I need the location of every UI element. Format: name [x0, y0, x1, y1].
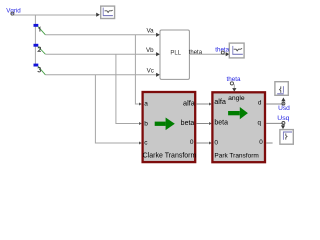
- signal label theta (on PLL output wire): [215, 46, 229, 54]
- svg-text:theta: theta: [215, 46, 229, 53]
- signal label Vgrid: [6, 8, 21, 16]
- svg-text:angle: angle: [228, 95, 245, 102]
- wire branch Va to Clarke a: [135, 35, 138, 104]
- scope SC4 (Usq): [280, 130, 293, 145]
- svg-text:Park Transform: Park Transform: [214, 152, 258, 159]
- wire theta label to Park angle input: [232, 84, 236, 91]
- signal label Usd: [278, 102, 290, 112]
- wire Park q to scope SC4: [266, 123, 285, 129]
- svg-text:beta: beta: [214, 120, 228, 127]
- svg-text:0: 0: [190, 139, 194, 146]
- svg-text:a: a: [144, 101, 148, 108]
- svg-text:b: b: [144, 121, 148, 128]
- wire Clarke 0 to Park 0: [196, 142, 209, 144]
- scope SC3 (Usd): [275, 82, 288, 96]
- Park Transform green arrow icon: [228, 107, 248, 119]
- wire Vgrid bus vertical: [34, 15, 36, 64]
- wire Clarke beta to Park beta: [196, 123, 209, 125]
- svg-text:Usd: Usd: [278, 105, 290, 112]
- signal label theta (source for Park angle): [227, 76, 242, 85]
- wire Clarke alfa to Park alfa: [196, 103, 209, 105]
- wire branch Vc to Clarke c: [95, 75, 138, 143]
- svg-text:alfa: alfa: [214, 97, 227, 106]
- wire Vc: [45, 67, 159, 77]
- svg-text:Va: Va: [146, 27, 154, 34]
- tap 1: [34, 24, 46, 35]
- svg-text:Usq: Usq: [277, 115, 289, 122]
- tap 3: [34, 64, 46, 75]
- tap 2: [34, 44, 46, 54]
- svg-text:d: d: [258, 100, 262, 107]
- signal label Usq: [277, 115, 289, 125]
- svg-text:theta: theta: [227, 76, 242, 83]
- wire Vgrid to scope SC1: [14, 13, 100, 17]
- svg-text:theta: theta: [189, 50, 203, 56]
- svg-text:0: 0: [214, 139, 218, 146]
- scope SC1: [101, 6, 115, 18]
- svg-text:PLL: PLL: [170, 51, 181, 57]
- svg-text:Clarke Transform: Clarke Transform: [143, 152, 197, 159]
- Clarke Transform green arrow icon: [155, 118, 175, 131]
- wire Park d to scope SC3: [266, 98, 285, 105]
- svg-text:Vb: Vb: [146, 47, 154, 54]
- svg-text:Vc: Vc: [147, 67, 154, 74]
- svg-text:alfa: alfa: [183, 98, 196, 107]
- scope SC2: [229, 43, 244, 58]
- svg-text:q: q: [258, 119, 262, 126]
- Park Transform block: [212, 92, 265, 162]
- wire Park 0 stub: [266, 142, 273, 144]
- Clarke Transform block: [143, 92, 197, 162]
- wire Va: [45, 27, 159, 37]
- wire branch Vb to Clarke b: [116, 54, 139, 123]
- svg-text:beta: beta: [181, 120, 195, 127]
- PLL block U1: [160, 30, 189, 79]
- wire PLL theta to scope SC2: [190, 52, 230, 56]
- svg-text:0: 0: [259, 139, 263, 146]
- wire Vb: [45, 47, 159, 57]
